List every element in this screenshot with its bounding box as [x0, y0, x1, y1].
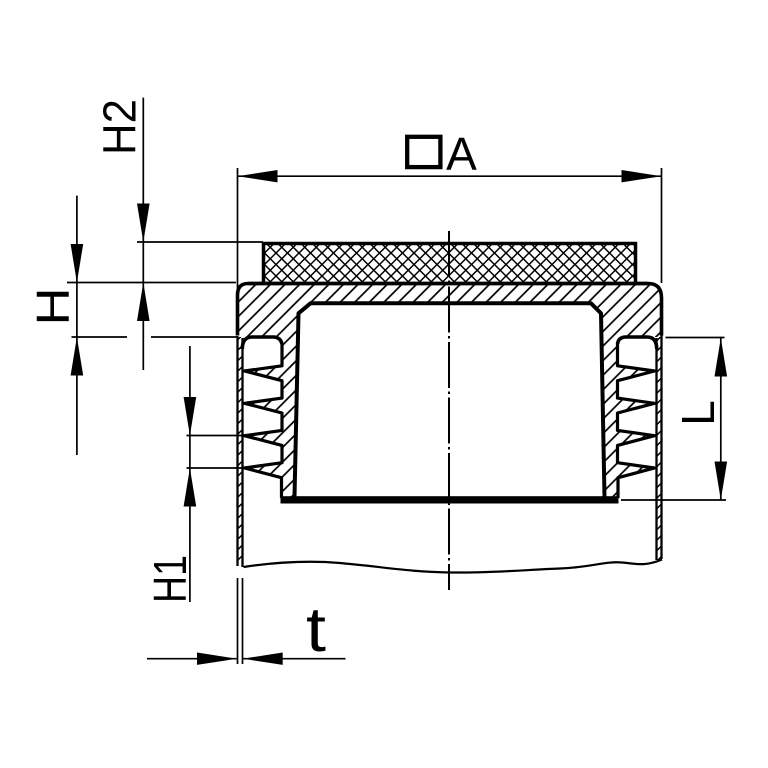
label square symbol	[407, 137, 440, 167]
dimension t: extension lines	[237, 578, 239, 664]
extension line tube top	[72, 336, 128, 338]
dimension H1: line	[189, 346, 191, 602]
dimension L: up arrow	[715, 338, 728, 377]
top plate outline	[264, 244, 636, 284]
dimension H1: down arrow	[184, 397, 197, 436]
dimension H: line	[76, 196, 78, 455]
sleeve bottom end face	[281, 496, 619, 503]
left sleeve with fins outline	[245, 344, 283, 499]
svg-text:H2: H2	[94, 99, 146, 155]
extension line plate top	[137, 241, 263, 243]
inner cavity outline	[295, 303, 605, 497]
tube break wavy line	[244, 560, 663, 573]
dimension L: line	[720, 338, 722, 500]
extension line flange top	[67, 282, 236, 284]
dimension H: down arrow	[71, 244, 84, 283]
svg-text:t: t	[306, 595, 327, 665]
right sleeve with fins outline	[618, 344, 655, 499]
flange outline	[238, 284, 662, 336]
svg-text:L: L	[672, 400, 724, 426]
dimension t: line right	[243, 658, 345, 660]
dimension A: left arrow	[238, 170, 278, 182]
right tube wall outline	[660, 336, 662, 560]
right tube wall hatch	[657, 337, 662, 560]
dimension H2: line	[142, 98, 144, 370]
dimension H1: up arrow	[184, 468, 197, 507]
dimension H2: up arrow	[137, 283, 150, 322]
cap flange and sleeve hatched body	[238, 284, 662, 498]
dimension A: extension lines	[237, 168, 239, 290]
dimension A: line	[238, 175, 661, 177]
dimension A: right arrow	[622, 170, 662, 182]
left tube wall hatch	[238, 337, 243, 566]
dimension t: right-pointing arrow	[197, 653, 237, 665]
flange underside right	[618, 337, 657, 349]
cap top plate crosshatched	[264, 243, 636, 284]
flange top line under plate	[248, 282, 648, 285]
dimension H: up arrow	[71, 337, 84, 376]
extension lines fin tips	[187, 435, 245, 437]
dimension H2: down arrow	[137, 204, 150, 243]
svg-text:A: A	[446, 128, 477, 180]
svg-text:H: H	[27, 288, 79, 326]
dimension t: line left	[147, 658, 237, 660]
svg-text:H1: H1	[144, 555, 196, 603]
dimension L: down arrow	[715, 462, 728, 501]
dimension L: extension lines	[666, 337, 725, 339]
left tube wall outline	[236, 336, 238, 566]
center line	[448, 231, 450, 590]
dimension t: left-pointing arrow	[243, 653, 283, 665]
flange underside left	[242, 337, 282, 349]
